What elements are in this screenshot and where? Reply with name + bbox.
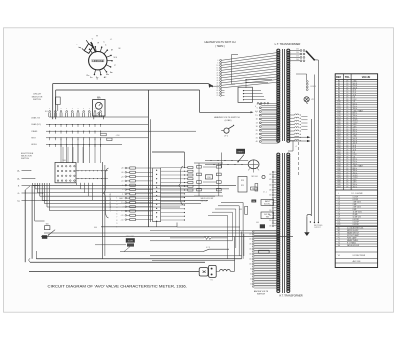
svg-text:HEATER VOLTS SWITCH: HEATER VOLTS SWITCH (214, 116, 240, 119)
svg-text:H.T. TRANSFORMER: H.T. TRANSFORMER (279, 295, 303, 298)
svg-text:FUSES: FUSES (311, 86, 316, 88)
svg-text:← HEATER SWITCH: ← HEATER SWITCH (109, 192, 112, 212)
svg-text:C/BIAS: C/BIAS (31, 130, 38, 133)
svg-text:CHAS. SS: CHAS. SS (31, 117, 41, 120)
svg-text:LP1: LP1 (311, 99, 314, 101)
svg-text:330: 330 (269, 215, 272, 217)
svg-text:1: 1 (116, 226, 117, 228)
svg-text:25: 25 (256, 134, 258, 136)
svg-text:140: 140 (249, 254, 252, 256)
svg-text:SLOW: SLOW (128, 241, 133, 243)
svg-text:(LOAD): (LOAD) (225, 119, 232, 122)
svg-text:25: 25 (217, 72, 219, 74)
svg-text:T08: T08 (62, 160, 65, 162)
svg-text:VALUE: VALUE (362, 75, 371, 79)
svg-text:20: 20 (217, 70, 219, 72)
svg-text:NET-444: NET-444 (251, 176, 257, 178)
svg-text:L.T. TRANSFORMER: L.T. TRANSFORMER (275, 42, 301, 46)
svg-text:REF: REF (336, 76, 341, 79)
svg-text:120: 120 (249, 259, 252, 261)
svg-text:450: 450 (269, 184, 272, 186)
svg-text:RECTIFIED: RECTIFIED (314, 225, 323, 227)
svg-text:CIRCUIT DIAGRAM OF ‘AVO’ VALVE: CIRCUIT DIAGRAM OF ‘AVO’ VALVE CHARACTER… (48, 284, 188, 288)
svg-text:SWITCH: SWITCH (21, 158, 29, 160)
svg-text:·C·: ·C· (110, 39, 113, 41)
svg-text:180: 180 (249, 244, 252, 246)
svg-text:400: 400 (256, 222, 259, 224)
svg-text:6: 6 (116, 214, 117, 216)
svg-text:ELECTRODE: ELECTRODE (21, 153, 34, 155)
svg-text:30: 30 (217, 75, 219, 77)
svg-text:390: 390 (269, 200, 272, 202)
svg-text:M: M (111, 50, 113, 52)
svg-text:A₁: A₁ (17, 169, 19, 172)
svg-text:600: 600 (46, 224, 49, 226)
svg-text:40: 40 (256, 141, 258, 143)
svg-text:+50: +50 (121, 219, 124, 221)
svg-text:+20: +20 (121, 215, 124, 217)
svg-text:A₂: A₂ (17, 177, 19, 180)
svg-text:10: 10 (217, 65, 219, 67)
svg-text:MA: MA (97, 96, 101, 99)
svg-text:4: 4 (296, 146, 297, 148)
svg-text:AVO 1936: AVO 1936 (353, 260, 361, 263)
svg-text:SWITCH: SWITCH (257, 293, 265, 295)
svg-text:410: 410 (269, 195, 272, 197)
svg-text:SWITCH: SWITCH (201, 201, 208, 203)
svg-text:9: 9 (116, 223, 117, 225)
svg-text:13: 13 (256, 123, 258, 125)
svg-text:8·8: 8·8 (45, 111, 48, 113)
svg-text:0.05 MF: 0.05 MF (353, 224, 359, 226)
svg-text:-3: -3 (122, 189, 124, 191)
svg-text:60: 60 (217, 90, 219, 92)
svg-text:160: 160 (249, 249, 252, 251)
svg-text:-5: -5 (122, 185, 124, 187)
svg-text:0 2 3: 0 2 3 (206, 247, 210, 249)
svg-text:R10: R10 (207, 177, 210, 179)
svg-text:200: 200 (296, 59, 299, 61)
svg-text:450 Ω: 450 Ω (353, 185, 358, 188)
svg-text:R28: R28 (241, 180, 244, 182)
svg-text:20: 20 (256, 130, 258, 132)
svg-text:2: 2 (116, 201, 117, 203)
svg-text:TOL: TOL (345, 76, 350, 79)
svg-text:350: 350 (269, 210, 272, 212)
svg-text:-30: -30 (121, 172, 124, 174)
svg-text:0 L L: 0 L L (263, 192, 267, 194)
svg-text:31: 31 (256, 137, 258, 139)
svg-text:-10: -10 (121, 181, 124, 183)
svg-text:V1: V1 (338, 255, 340, 257)
svg-text:1/2 : 1 HF/1MF: 1/2 : 1 HF/1MF (351, 193, 362, 195)
svg-text:430: 430 (269, 190, 272, 192)
svg-text:50: 50 (217, 85, 219, 87)
svg-text:7: 7 (116, 217, 117, 219)
svg-text:HEATER VOLTS SWIT CH: HEATER VOLTS SWIT CH (205, 40, 236, 44)
svg-text:-1: -1 (122, 194, 124, 196)
svg-text:U12 RECTIFIER: U12 RECTIFIER (353, 255, 366, 257)
svg-text:310: 310 (269, 220, 272, 222)
svg-text:15: 15 (217, 67, 219, 69)
svg-text:200: 200 (249, 239, 252, 241)
svg-text:35: 35 (217, 77, 219, 79)
svg-text:-20: -20 (121, 176, 124, 178)
svg-text:+150: +150 (116, 135, 120, 137)
svg-text:-40: -40 (121, 168, 124, 170)
svg-text:ANODE VOLTS: ANODE VOLTS (254, 290, 269, 293)
svg-text:OUTPUT: OUTPUT (314, 227, 321, 229)
svg-text:100: 100 (249, 264, 252, 266)
svg-text:490: 490 (269, 174, 272, 176)
svg-text:CIRCUIT: CIRCUIT (33, 94, 42, 96)
svg-text:290: 290 (269, 225, 272, 227)
svg-text:8: 8 (116, 220, 117, 222)
svg-text:V1: V1 (210, 279, 212, 281)
svg-text:L: L (338, 193, 339, 195)
svg-text:1.5: 1.5 (121, 202, 123, 204)
svg-text:SELECTOR: SELECTOR (32, 96, 43, 98)
svg-text:7.5: 7.5 (255, 115, 258, 117)
svg-text:C12: C12 (337, 224, 340, 226)
svg-text:u: u (100, 108, 101, 110)
svg-text:RESET: RESET (238, 152, 245, 154)
svg-text:45: 45 (217, 82, 219, 84)
svg-text:16: 16 (256, 126, 258, 128)
svg-text:S.S: S.S (114, 57, 118, 59)
svg-text:65: 65 (217, 92, 219, 94)
svg-text:370: 370 (269, 205, 272, 207)
svg-text:1: 1 (116, 198, 117, 200)
svg-text:230: 230 (296, 52, 299, 54)
svg-text:R31: R31 (239, 209, 242, 211)
svg-text:2.5: 2.5 (121, 211, 123, 213)
svg-text:u: u (89, 108, 90, 110)
svg-text:470: 470 (269, 179, 272, 181)
svg-text:CHAS (DO): CHAS (DO) (31, 123, 41, 126)
svg-text:G: G (18, 193, 20, 195)
svg-text:R47: R47 (337, 186, 340, 188)
svg-text:10: 10 (256, 119, 258, 121)
svg-text:80: 80 (250, 269, 252, 271)
svg-text:LEVEL: LEVEL (31, 144, 37, 146)
svg-text:220: 220 (249, 234, 252, 236)
svg-text:55: 55 (217, 87, 219, 89)
svg-text:20: 20 (250, 284, 252, 286)
svg-text:250: 250 (296, 49, 299, 51)
svg-text:LP 2: LP 2 (224, 136, 228, 138)
svg-text:SWITCH: SWITCH (33, 99, 41, 101)
svg-text:3: 3 (116, 204, 117, 206)
svg-text:GRID BIAS: GRID BIAS (126, 235, 135, 238)
svg-text:4: 4 (116, 207, 117, 209)
svg-text:6.3: 6.3 (255, 111, 258, 113)
svg-text:R29: R29 (241, 185, 244, 187)
svg-text:SELECTOR: SELECTOR (21, 156, 32, 158)
svg-text:600: 600 (94, 227, 97, 229)
svg-text:2: 2 (122, 206, 123, 208)
svg-text:210: 210 (296, 55, 299, 57)
svg-text:PRE: PRE (252, 201, 255, 203)
svg-text:5: 5 (116, 210, 117, 212)
svg-text:( TERM ): ( TERM ) (215, 46, 225, 48)
svg-text:60: 60 (250, 274, 252, 276)
svg-text:METER SHUNT: METER SHUNT (347, 230, 359, 232)
svg-text:40: 40 (217, 80, 219, 82)
svg-text:40: 40 (250, 279, 252, 281)
svg-text:TEST: TEST (31, 138, 37, 140)
svg-text:5: 5 (257, 108, 258, 110)
svg-text:70: 70 (217, 95, 219, 97)
svg-text:u: u (72, 108, 73, 110)
